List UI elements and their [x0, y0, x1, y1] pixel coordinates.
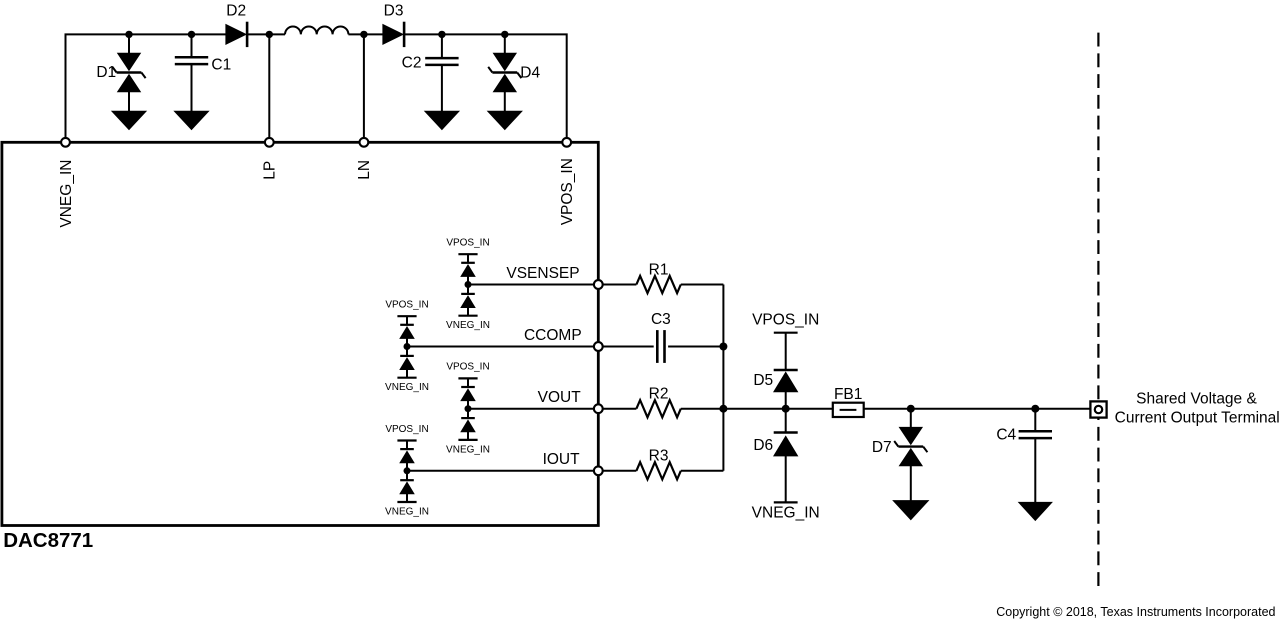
svg-text:VNEG_IN: VNEG_IN [446, 444, 490, 455]
svg-text:C3: C3 [651, 311, 671, 328]
svg-text:VPOS_IN: VPOS_IN [446, 238, 489, 249]
svg-text:LN: LN [356, 160, 373, 180]
svg-text:FB1: FB1 [834, 386, 862, 403]
svg-text:CCOMP: CCOMP [524, 327, 582, 344]
svg-text:LP: LP [262, 161, 279, 180]
svg-text:Current Output Terminal: Current Output Terminal [1115, 409, 1280, 426]
svg-text:C4: C4 [996, 427, 1016, 444]
svg-text:Shared Voltage &: Shared Voltage & [1136, 390, 1257, 407]
svg-text:D7: D7 [872, 439, 892, 456]
svg-text:IOUT: IOUT [543, 451, 581, 468]
svg-text:C1: C1 [211, 56, 231, 73]
svg-text:R2: R2 [649, 386, 669, 403]
svg-text:Copyright © 2018, Texas Instru: Copyright © 2018, Texas Instruments Inco… [996, 605, 1275, 619]
svg-text:VNEG_IN: VNEG_IN [446, 320, 490, 331]
svg-text:R1: R1 [649, 261, 669, 278]
svg-text:DAC8771: DAC8771 [3, 529, 93, 552]
svg-text:D2: D2 [226, 3, 246, 20]
svg-text:R3: R3 [649, 448, 669, 465]
svg-text:VPOS_IN: VPOS_IN [446, 362, 489, 373]
svg-text:VOUT: VOUT [538, 389, 582, 406]
svg-text:D6: D6 [753, 437, 773, 454]
svg-text:D1: D1 [96, 64, 116, 81]
svg-text:VNEG_IN: VNEG_IN [385, 382, 429, 393]
svg-text:D4: D4 [520, 65, 540, 82]
svg-text:D3: D3 [384, 3, 404, 20]
svg-text:VPOS_IN: VPOS_IN [385, 424, 428, 435]
svg-text:VNEG_IN: VNEG_IN [385, 506, 429, 517]
svg-text:VNEG_IN: VNEG_IN [752, 505, 820, 522]
svg-text:VSENSEP: VSENSEP [506, 265, 579, 282]
svg-text:VPOS_IN: VPOS_IN [559, 158, 576, 225]
svg-text:D5: D5 [753, 372, 773, 389]
svg-text:C2: C2 [402, 54, 422, 71]
svg-text:VNEG_IN: VNEG_IN [58, 160, 75, 228]
svg-text:VPOS_IN: VPOS_IN [385, 300, 428, 311]
svg-text:VPOS_IN: VPOS_IN [752, 312, 819, 329]
